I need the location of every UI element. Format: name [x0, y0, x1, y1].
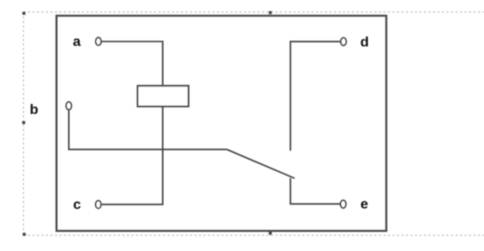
- svg-text:c: c: [73, 196, 81, 212]
- selection handle bottom-middle: [269, 232, 272, 235]
- wire from lower switch contact to terminal e: [290, 178, 340, 204]
- selection handle left-middle: [22, 121, 25, 124]
- svg-text:e: e: [360, 195, 368, 211]
- relay coil box: [138, 86, 189, 107]
- selection marquee dashed top edge: [24, 11, 484, 13]
- svg-text:d: d: [360, 33, 369, 49]
- selection marquee dashed bottom edge: [24, 234, 484, 236]
- selection handle top-left: [22, 12, 25, 15]
- relay enclosure rectangle: [57, 16, 387, 231]
- terminal e: [341, 200, 346, 208]
- terminal c: [96, 201, 101, 209]
- terminal a: [96, 38, 101, 46]
- wire from coil bottom to terminal c: [102, 106, 163, 204]
- terminal b: [66, 102, 71, 110]
- selection handle top-middle: [269, 11, 272, 14]
- wire from terminal d to upper switch contact: [290, 42, 340, 151]
- switch blade (thrown to lower contact): [227, 149, 295, 178]
- svg-text:b: b: [30, 101, 39, 117]
- wire from terminal a to coil top: [102, 42, 163, 86]
- terminal d: [341, 38, 346, 46]
- wire from terminal b to switch blade pivot: [69, 109, 227, 149]
- svg-text:a: a: [73, 33, 81, 49]
- selection handle bottom-left: [23, 233, 26, 236]
- selection marquee dashed left edge: [23, 12, 25, 235]
